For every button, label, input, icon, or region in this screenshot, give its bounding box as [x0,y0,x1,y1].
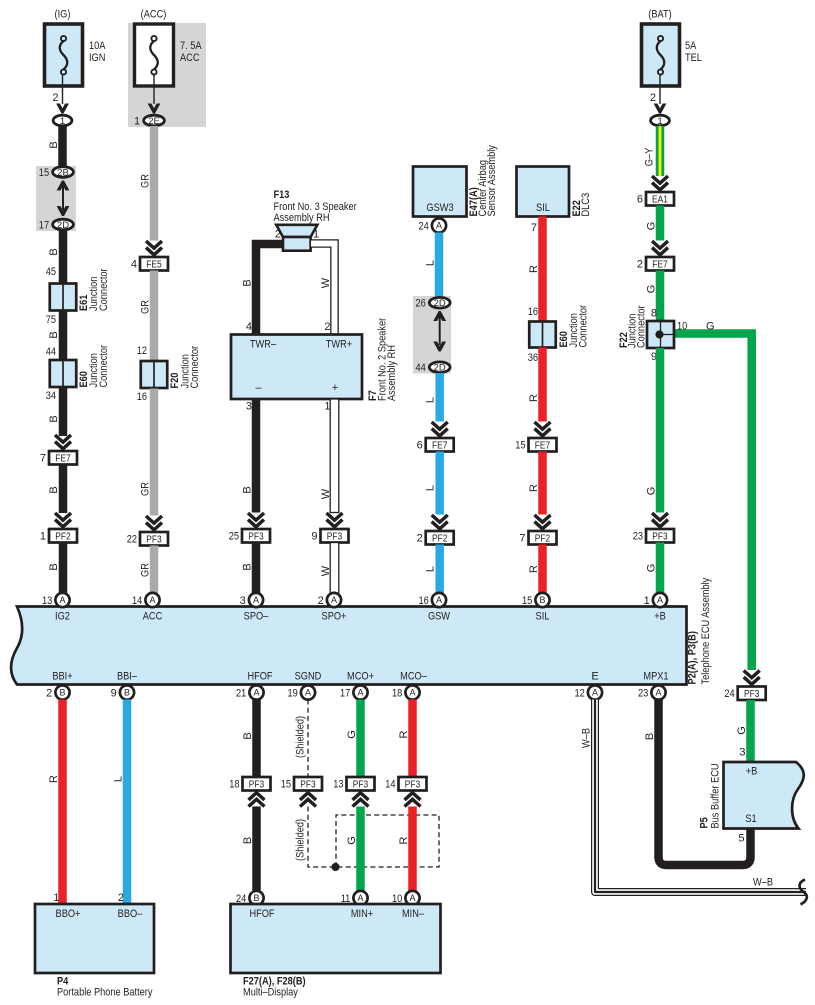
svg-text:R: R [398,836,410,844]
svg-text:12: 12 [137,345,147,357]
ECU top pin 16 A GSW [432,593,446,607]
junction connector F20 [141,361,168,388]
svg-text:13: 13 [42,595,52,607]
svg-text:19: 19 [288,687,298,699]
svg-text:B: B [124,688,130,698]
wire G EA1 to FE7 [656,206,665,241]
svg-text:B: B [48,415,60,422]
svg-text:Assembly RH: Assembly RH [274,212,330,224]
svg-text:L: L [425,397,437,403]
svg-text:Connector: Connector [98,345,110,388]
svg-text:A: A [253,595,259,605]
shield drain dashed wire to shield box [308,807,334,868]
svg-text:S1: S1 [745,813,756,825]
svg-text:2: 2 [417,533,423,545]
wire R PF3 to MIN- [408,807,417,891]
ECU bottom pin 17 A MCO+ [353,685,367,699]
svg-text:B: B [59,688,65,698]
svg-text:PF3: PF3 [652,531,668,542]
svg-text:2: 2 [52,92,58,104]
svg-text:+: + [332,382,338,394]
svg-text:4: 4 [246,321,252,333]
svg-text:IGN: IGN [89,52,105,64]
svg-text:16: 16 [137,391,147,403]
wire W F7 pin 1 to PF3 [330,399,339,513]
svg-text:DLC3: DLC3 [580,193,592,217]
shield junction dot [331,863,339,871]
svg-text:B: B [539,595,545,605]
wire GR F20 to PF3 [150,389,159,516]
wire R E60 to FE7 [538,348,547,422]
svg-text:25: 25 [229,531,239,543]
ECU bottom pin 2 B BBI+ [55,685,69,699]
svg-text:1: 1 [134,115,140,127]
svg-text:7: 7 [519,533,525,545]
svg-text:2: 2 [275,229,281,241]
connector PF3 pin 18 [243,777,271,791]
wire B HFOF to PF3 [252,700,261,778]
svg-text:A: A [59,595,65,605]
svg-text:Connector: Connector [578,305,590,348]
svg-text:3: 3 [739,747,745,759]
svg-text:2: 2 [46,687,52,699]
svg-text:1: 1 [657,116,662,127]
wire G PF3 to MIN+ [356,807,365,891]
svg-text:Multi–Display: Multi–Display [243,987,298,999]
svg-text:24: 24 [724,688,734,700]
wire R MCO- to PF3 [408,700,417,778]
wire R SIL to E60 [538,217,547,322]
wire GR 2E to FE5 [150,126,159,241]
amplifier F7 Front No. 2 Speaker Assembly RH [231,335,362,400]
wire G PF3 to ECU +B [656,543,665,595]
svg-text:1: 1 [40,531,46,543]
svg-text:R: R [528,565,540,573]
connector PF3 pin 14 [399,777,427,791]
svg-text:A: A [436,221,442,231]
svg-text:GSW3: GSW3 [426,202,453,214]
svg-text:14: 14 [132,595,142,607]
display F27(A) F28(B) Multi-Display [231,904,441,973]
connector FE7 pin 15 [529,438,557,452]
wire B IG to 2B [58,126,67,167]
svg-text:MIN+: MIN+ [351,908,373,920]
svg-text:B: B [242,486,254,493]
svg-text:18: 18 [392,687,402,699]
wire L 2D to FE7 [435,373,444,422]
wire R PF2 to ECU SIL [538,545,547,595]
svg-text:A: A [149,595,155,605]
svg-text:W: W [320,488,332,499]
in-harness connector pair 2D/2D [413,296,451,374]
svg-text:PF2: PF2 [432,533,448,544]
svg-text:2: 2 [118,892,124,904]
ECU bottom pin 19 A SGND [301,685,315,699]
svg-text:2B: 2B [57,167,69,178]
svg-text:G: G [646,564,658,573]
wire G PF3 to Bus Buffer ECU +B [746,700,755,762]
svg-text:B: B [48,331,60,338]
svg-text:SIL: SIL [536,611,550,623]
svg-text:TEL: TEL [685,52,702,64]
svg-text:3: 3 [246,401,252,413]
ECU top pin 13 A IG2 [55,593,69,607]
junction connector F22 [647,321,674,348]
svg-text:(ACC): (ACC) [141,9,167,21]
svg-text:B: B [48,563,60,570]
svg-text:A: A [357,893,363,903]
junction connector E60 [50,360,77,387]
wire W PF3 to ECU SPO+ [330,543,339,595]
pin 10 A of Multi-Display [405,891,419,905]
svg-text:SPO–: SPO– [244,611,269,623]
svg-text:BBI+: BBI+ [52,671,72,683]
svg-text:+B: +B [654,611,666,623]
svg-text:24: 24 [419,220,429,232]
svg-text:F13: F13 [274,189,290,201]
svg-text:A: A [655,688,661,698]
connector PF2 pin 1 [49,529,77,543]
wire B PF3 to HFOF Multi-Display [252,807,261,891]
ECU bottom pin 18 A MCO- [405,685,419,699]
svg-text:MCO–: MCO– [400,671,427,683]
svg-text:EA1: EA1 [652,194,668,205]
connector PF3 pin 13 [347,777,375,791]
wire B MPX1 to Bus Buffer ECU S1 [659,700,751,866]
svg-text:1: 1 [644,595,650,607]
svg-text:18: 18 [229,779,239,791]
svg-text:14: 14 [385,779,395,791]
connector FE7 pin 2 [646,257,674,271]
connector PF2 pin 7 [529,531,557,545]
pin 11 A of Multi-Display [353,891,367,905]
svg-text:5A: 5A [685,40,697,52]
svg-text:1: 1 [313,229,319,241]
svg-text:GSW: GSW [428,611,451,623]
ECU top pin 14 A ACC [145,593,159,607]
connector FE7 pin 6 [426,438,454,452]
connector FE7 pin 7 [49,451,77,465]
svg-text:PF3: PF3 [405,779,421,790]
svg-text:TWR–: TWR– [250,339,277,351]
svg-text:L: L [425,566,437,572]
svg-text:G–Y: G–Y [644,147,656,166]
svg-text:7. 5A: 7. 5A [180,40,202,52]
connector pin 1 (IG) [53,115,72,126]
svg-text:Connector: Connector [636,305,648,348]
svg-text:ACC: ACC [143,611,163,623]
svg-text:G: G [346,836,358,845]
svg-text:ACC: ACC [180,52,200,64]
svg-text:A: A [357,688,363,698]
wire B F7 pin 3 to PF3 [252,399,261,513]
svg-text:10A: 10A [89,40,106,52]
svg-text:BBO+: BBO+ [56,908,81,920]
wire B E60 to FE7 [59,387,68,436]
svg-text:A: A [409,893,415,903]
svg-text:B: B [48,248,60,255]
ECU bottom pin 9 B BBI- [120,685,134,699]
svg-text:A: A [436,595,442,605]
svg-text:G: G [706,321,715,333]
ECU P2(A) P3(B) Telephone ECU Assembly [11,607,687,685]
svg-text:75: 75 [46,314,56,326]
svg-text:A: A [592,688,598,698]
svg-text:FE7: FE7 [652,259,668,270]
connector PF3 pin 23 [646,529,674,543]
wire G-Y BAT to EA1 [656,126,665,176]
svg-text:6: 6 [417,440,423,452]
svg-text:Connector: Connector [98,268,110,311]
wire from fuse ACC [153,74,155,104]
connector EA1 pin 6 [646,192,674,206]
svg-text:TWR+: TWR+ [326,339,352,351]
ECU top pin 2 A SPO+ [327,593,341,607]
connector PF3 pin 25 [242,529,270,543]
svg-text:A: A [331,595,337,605]
svg-text:2D: 2D [57,220,69,231]
svg-text:3: 3 [240,595,246,607]
svg-text:2D: 2D [434,363,446,374]
svg-text:Telephone ECU Assembly: Telephone ECU Assembly [700,577,712,684]
svg-text:23: 23 [638,687,648,699]
svg-text:HFOF: HFOF [247,671,272,683]
in-harness connector pair 2B/2D [36,166,76,231]
svg-text:34: 34 [46,390,56,402]
svg-text:13: 13 [333,779,343,791]
svg-text:23: 23 [633,531,643,543]
continuation mark W-B wire [800,880,807,905]
svg-text:PF3: PF3 [353,779,369,790]
wire R BBI+ to BBO+ [58,700,67,905]
wire L PF2 to ECU GSW [435,545,444,595]
svg-text:GR: GR [140,174,152,188]
svg-text:L: L [113,776,125,782]
connector pin 1 (BAT) [651,115,670,126]
wire G branch chevron into PF3 pin 24 [744,671,760,678]
ECU bottom pin 12 A E [588,685,602,699]
ECU top pin 1 A +B [653,593,667,607]
svg-text:FE5: FE5 [146,259,162,270]
wire B FE7 to PF2 [59,465,68,514]
connector FE5 pin 4 [140,257,168,271]
svg-text:15: 15 [39,167,49,179]
svg-text:MCO+: MCO+ [347,671,374,683]
svg-text:36: 36 [528,352,538,364]
svg-text:B: B [242,732,254,739]
svg-text:B: B [48,141,60,148]
wire B 2D to E61 [59,231,68,284]
svg-text:FE7: FE7 [55,453,71,464]
svg-text:A: A [657,595,663,605]
battery P4 Portable Phone Battery [35,904,154,973]
svg-text:44: 44 [416,362,426,374]
svg-text:15: 15 [522,595,532,607]
pin 24 A of E47 [432,218,446,232]
svg-text:–: – [255,382,262,394]
wire L BBI- to BBO- [123,700,132,905]
svg-text:B: B [242,279,254,286]
svg-text:SGND: SGND [295,671,322,683]
svg-text:W–B: W–B [753,877,773,889]
svg-text:2: 2 [637,259,643,271]
svg-text:15: 15 [281,779,291,791]
junction connector E61 [50,284,77,311]
svg-text:PF3: PF3 [327,531,343,542]
svg-text:21: 21 [236,687,246,699]
svg-text:10: 10 [677,321,687,333]
svg-text:W: W [320,565,332,576]
svg-text:SPO+: SPO+ [322,611,347,623]
svg-text:B: B [242,563,254,570]
svg-text:(Shielded): (Shielded) [295,716,307,758]
wire B PF3 to ECU SPO- [252,543,261,595]
svg-text:Connector: Connector [189,346,201,389]
svg-text:12: 12 [575,687,585,699]
svg-text:FE7: FE7 [535,440,551,451]
ECU P5 Bus Buffer ECU [724,762,804,829]
svg-text:W–B: W–B [581,728,593,748]
wire R FE7 to PF2 [538,452,547,515]
wire G F22 to PF3 [656,348,665,513]
svg-text:16: 16 [419,595,429,607]
svg-text:(IG): (IG) [55,9,71,21]
svg-text:Bus Buffer ECU: Bus Buffer ECU [710,763,722,828]
wire W speaker F13 to F7 TWR+ [311,244,335,335]
junction connector E60 (DLC3 side) [529,322,556,348]
svg-text:1: 1 [53,892,59,904]
connector PF3 pin 9 [321,529,349,543]
svg-text:L: L [425,485,437,491]
svg-text:R: R [48,775,60,783]
svg-text:B: B [253,893,259,903]
svg-text:2: 2 [650,92,656,104]
svg-text:8: 8 [651,308,657,320]
svg-text:GR: GR [140,563,152,577]
connector E22 DLC3 SIL [517,167,570,217]
wire GR FE5 to F20 [150,271,159,362]
svg-text:6: 6 [637,194,643,206]
svg-text:B: B [48,486,60,493]
svg-text:17: 17 [39,219,49,231]
connector pin 1 (2E) [144,115,165,126]
svg-text:BBI–: BBI– [117,671,138,683]
svg-text:2: 2 [324,321,330,333]
svg-text:2: 2 [318,595,324,607]
svg-text:B: B [242,837,254,844]
svg-text:GR: GR [140,300,152,314]
svg-text:IG2: IG2 [55,611,70,623]
svg-text:R: R [398,730,410,738]
svg-text:16: 16 [528,306,538,318]
svg-text:Sensor Assembly: Sensor Assembly [486,145,498,217]
svg-text:7: 7 [531,222,537,234]
svg-text:PF3: PF3 [146,534,162,545]
svg-text:PF2: PF2 [55,531,71,542]
svg-text:P2(A), P3(B): P2(A), P3(B) [687,631,699,685]
wire B PF2 to ECU IG2 [59,543,68,595]
shield drain dashed wire pin 19 [307,700,309,778]
svg-text:SIL: SIL [536,202,550,214]
svg-text:22: 22 [127,534,137,546]
svg-text:R: R [528,484,540,492]
svg-text:Assembly RH: Assembly RH [386,345,398,401]
svg-text:44: 44 [46,346,56,358]
svg-text:G: G [646,285,658,294]
wire B speaker F13 to F7 TWR- [256,244,284,335]
svg-text:PF3: PF3 [300,779,316,790]
connector PF3 pin 24 [738,687,766,701]
svg-text:R: R [528,394,540,402]
svg-text:9: 9 [111,687,117,699]
svg-text:FE7: FE7 [432,440,448,451]
svg-text:W: W [320,277,332,288]
connector PF2 pin 2 [426,531,454,545]
svg-text:A: A [409,688,415,698]
wire L FE7 to PF2 [435,452,444,515]
connector PF3 pin 22 [140,532,168,546]
svg-text:BBO–: BBO– [118,908,143,920]
svg-text:B: B [644,733,656,740]
svg-text:+B: +B [746,766,758,778]
svg-text:G: G [646,487,658,496]
pin 24 B of Multi-Display [249,891,263,905]
sensor E47(A) Center Airbag Sensor Assembly GSW3 [413,167,467,217]
svg-text:PF3: PF3 [744,689,760,700]
svg-text:4: 4 [131,259,137,271]
svg-text:Portable Phone Battery: Portable Phone Battery [57,987,153,999]
svg-text:G: G [346,730,358,739]
wire from fuse BAT pin 2 [659,74,661,104]
wire G FE7 to F22 [656,271,665,322]
svg-text:45: 45 [46,266,56,278]
ECU bottom pin 23 A MPX1 [651,685,665,699]
wire G branch F22 pin 10 to PF3 pin 24 [672,334,752,671]
svg-text:GR: GR [140,482,152,496]
svg-text:9: 9 [311,531,317,543]
svg-text:1: 1 [60,116,65,127]
wire G MCO+ to PF3 [356,700,365,778]
svg-text:G: G [736,726,748,735]
svg-text:7: 7 [40,453,46,465]
wire B E61 to E60 [59,311,68,361]
shield dashed box around MCO wires [336,815,439,867]
svg-text:5: 5 [738,833,744,845]
ECU bottom pin 21 A HFOF [249,685,263,699]
svg-text:PF3: PF3 [249,779,265,790]
svg-text:R: R [528,265,540,273]
svg-text:A: A [305,688,311,698]
svg-text:PF3: PF3 [248,531,264,542]
svg-text:2E: 2E [148,116,160,127]
svg-text:G: G [646,222,658,231]
connector PF3 pin 15 [294,777,322,791]
wire from fuse IG pin 2 [62,74,64,104]
svg-text:(Shielded): (Shielded) [295,819,307,861]
svg-text:15: 15 [515,440,525,452]
svg-text:MPX1: MPX1 [643,671,668,683]
svg-text:PF2: PF2 [535,533,551,544]
svg-text:A: A [253,688,259,698]
ECU top pin 15 B SIL [535,593,549,607]
svg-text:HFOF: HFOF [249,908,274,920]
svg-text:L: L [425,260,437,266]
svg-text:(BAT): (BAT) [648,9,671,21]
svg-text:26: 26 [416,298,426,310]
wire GR PF3 to ECU ACC [150,546,159,595]
wire L GSW3 to 2D [435,233,444,298]
svg-text:E: E [591,671,598,683]
